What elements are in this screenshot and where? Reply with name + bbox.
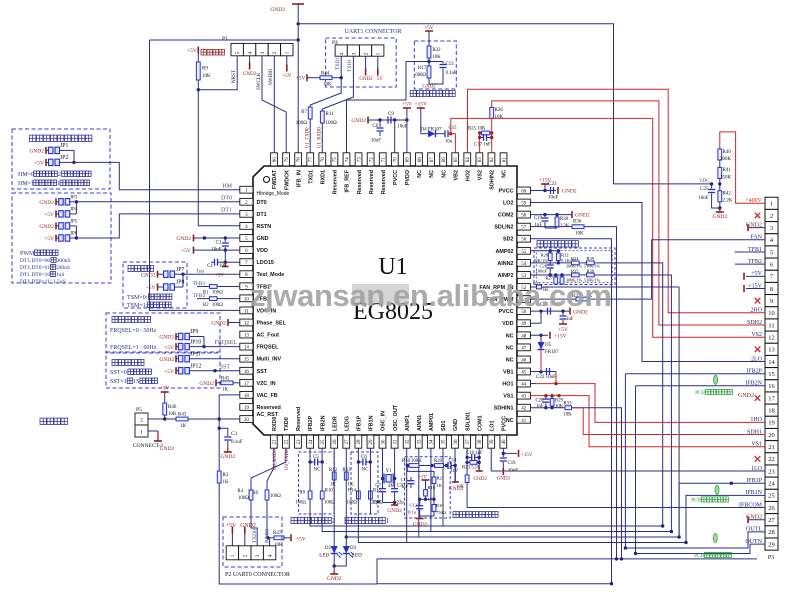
svg-text:+5V: +5V: [44, 236, 54, 242]
svg-text:47: 47: [521, 346, 527, 351]
wire LO1 pin39 to 1LO P3 pin23: [491, 448, 765, 471]
red wire 2HO: HO2 pin64 to P3 pin10: [468, 89, 766, 313]
resistor R20: [435, 464, 444, 468]
svg-text:+5V: +5V: [164, 369, 174, 375]
svg-text:SST=1: SST=1: [110, 379, 127, 385]
svg-text:10K: 10K: [168, 412, 177, 417]
capacitor C22 10uF: [546, 368, 548, 375]
pin 43 box: [517, 392, 530, 399]
svg-text:3: 3: [770, 225, 773, 232]
svg-text:78: 78: [297, 157, 302, 163]
pin 14 box: [240, 343, 253, 350]
wire AINN2 pin54 with R34 R39 out right: [530, 262, 571, 264]
pin 42 box: [517, 404, 530, 411]
svg-text:2.2K: 2.2K: [723, 199, 733, 204]
capacitor C9: [387, 117, 389, 124]
svg-text:35: 35: [442, 439, 447, 445]
svg-text:C1: C1: [207, 264, 213, 269]
pin 34 box: [427, 435, 434, 448]
svg-text:PVCC: PVCC: [502, 416, 508, 431]
svg-text:40: 40: [502, 439, 507, 445]
pin 24 box: [307, 435, 314, 448]
wire VDD pin49 to +5V: [530, 322, 541, 324]
svg-text:HM=1: HM=1: [18, 181, 34, 187]
svg-text:100Ω: 100Ω: [295, 501, 306, 506]
svg-text:19: 19: [768, 420, 775, 427]
svg-text:GND2: GND2: [712, 214, 727, 220]
svg-text:IFB2N: IFB2N: [320, 415, 326, 431]
resistor R14 100 on IFB1P: [357, 491, 361, 499]
pin 20 box: [240, 416, 253, 423]
wire Multi_INV pin15: [189, 358, 239, 360]
wire PVCC pin40 with C18: [502, 448, 504, 457]
svg-text:80: 80: [273, 157, 278, 163]
svg-text:58: 58: [521, 214, 527, 219]
svg-text:R18: R18: [428, 485, 436, 490]
svg-text:FWDAT: FWDAT: [272, 169, 278, 189]
svg-text:2: 2: [58, 172, 61, 178]
svg-text:R25 10K: R25 10K: [468, 127, 486, 132]
wire SD2 pin56: [377, 239, 612, 584]
svg-text:R46: R46: [168, 405, 177, 410]
svg-text:R29: R29: [555, 399, 564, 404]
capacitor C13 0.1uF: [429, 62, 443, 64]
red wire 1HO: HO1 pin44 to P3 pin19: [530, 383, 536, 385]
green marker PCB diff pair 2: [714, 375, 718, 384]
svg-text:20: 20: [768, 432, 775, 439]
svg-text:R43: R43: [178, 413, 187, 418]
svg-text:·5V: ·5V: [375, 77, 383, 82]
svg-text:GND: GND: [453, 419, 459, 431]
svg-text:31: 31: [393, 439, 398, 445]
svg-text:+5V: +5V: [558, 327, 568, 333]
svg-text:GND2: GND2: [562, 189, 577, 195]
svg-text:10K: 10K: [495, 115, 504, 120]
svg-text:LDO15: LDO15: [257, 260, 274, 266]
svg-text:68: 68: [418, 157, 423, 163]
svg-text:23: 23: [768, 468, 775, 475]
+5V and resistor R9 10K: [197, 47, 199, 54]
pin 17 box: [240, 379, 253, 386]
no-connect X at P3 pin 22: [755, 456, 761, 462]
wire TFB2 stub to P3 pin6: [735, 263, 765, 265]
svg-text:FWDCK: FWDCK: [284, 170, 290, 190]
resistor R33 10K: [565, 406, 572, 410]
svg-text:25: 25: [321, 439, 326, 445]
second stage limit text: [453, 512, 459, 518]
svg-text:Hbridge_Mode: Hbridge_Mode: [257, 191, 290, 197]
svg-text:5: 5: [235, 51, 241, 54]
svg-text:GND2: GND2: [243, 72, 257, 77]
pin 27 box: [343, 435, 350, 448]
svg-text:55: 55: [521, 250, 527, 255]
svg-text:GND2: GND2: [575, 213, 590, 219]
svg-text:NC: NC: [506, 345, 514, 351]
svg-text:D3: D3: [350, 546, 357, 551]
pin 59 box: [517, 199, 530, 206]
wire PVCC pin60 with C23: [530, 189, 556, 191]
svg-text:32: 32: [405, 439, 410, 445]
svg-text:DT0: DT0: [221, 196, 232, 202]
resistor R30 3.3K: [555, 217, 559, 227]
wire SDHIN1 pin42 with R33: [530, 407, 565, 409]
svg-text:0.1u: 0.1u: [408, 510, 417, 515]
resistor R26 10K: [490, 107, 494, 118]
resistor R3 1K: [217, 471, 221, 483]
svg-text:1: 1: [285, 51, 291, 54]
svg-text:23: 23: [297, 439, 302, 445]
pin 11 box: [240, 307, 253, 314]
pin 26 box: [331, 435, 338, 448]
svg-text:R9: R9: [202, 67, 208, 72]
capacitor C18 10uF: [500, 457, 507, 459]
pin 39 box: [488, 435, 495, 448]
svg-text:D2: D2: [325, 546, 332, 551]
svg-text:510K/1%: 510K/1%: [584, 264, 601, 269]
pin 73 box: [355, 153, 362, 166]
svg-text:15: 15: [244, 358, 250, 363]
svg-text:14: 14: [244, 346, 250, 351]
svg-text:100Ω: 100Ω: [326, 121, 338, 126]
dashed box: P2 UART0 connector: [223, 517, 282, 567]
svg-text:41: 41: [521, 419, 527, 424]
svg-text:TXD0: TXD0: [284, 417, 290, 431]
svg-text:4: 4: [339, 52, 345, 55]
pin 31 box: [391, 435, 398, 448]
svg-text:TXD1: TXD1: [348, 59, 353, 72]
svg-text:R40: R40: [723, 150, 732, 155]
pin 6 box: [240, 247, 253, 254]
svg-text:1K: 1K: [223, 480, 230, 485]
wire DT1 net to pin3: [75, 226, 77, 238]
svg-text:GND2: GND2: [160, 446, 175, 452]
svg-text:VDD: VDD: [502, 321, 513, 327]
wire LO2 pin59 to 2LO P3 pin14: [530, 203, 765, 362]
capacitor C12 0.1uF: [419, 499, 421, 505]
svg-text:62: 62: [490, 157, 495, 163]
svg-text:R34: R34: [571, 256, 579, 261]
svg-text:10u: 10u: [445, 140, 453, 145]
pin 63 box: [476, 153, 483, 166]
svg-text:30: 30: [381, 439, 386, 445]
svg-text:IFB1P: IFB1P: [357, 415, 363, 431]
svg-text:COM2: COM2: [498, 213, 514, 219]
wire AINN1 pin33 down: [418, 448, 420, 537]
svg-text:Phase_SEL: Phase_SEL: [257, 320, 287, 326]
wire FAN_RPM_IN pin52 with R31: [530, 286, 536, 288]
svg-text:R30: R30: [560, 217, 569, 222]
connector P5 CONNECT-2 output reset: [40, 418, 46, 425]
svg-text:1nF: 1nF: [401, 484, 409, 489]
svg-text:+5V: +5V: [164, 345, 174, 351]
svg-text:FRQSEL=1 : 60Hz: FRQSEL=1 : 60Hz: [110, 345, 157, 351]
svg-text:56: 56: [521, 238, 527, 243]
red wire SDH1 to P3 pin20: [572, 408, 766, 435]
wire SST pin16: [189, 370, 239, 372]
pin 64 box: [464, 153, 471, 166]
svg-text:TSM=0:: TSM=0:: [127, 295, 148, 301]
no-connect X at P3 pin 2: [755, 213, 761, 219]
svg-text:C17 1nF: C17 1nF: [474, 143, 491, 148]
svg-text:1K: 1K: [348, 483, 354, 488]
pin 13 box: [240, 331, 253, 338]
svg-text:GND2: GND2: [359, 77, 373, 82]
svg-text:DT1.DT0=11: 1.5uS: DT1.DT0=11: 1.5uS: [20, 279, 66, 285]
pin 2 box: [240, 198, 253, 205]
svg-text:NC: NC: [506, 357, 514, 363]
svg-text:0.1uF: 0.1uF: [446, 71, 457, 76]
svg-text:U1_RXD0: U1_RXD0: [318, 127, 323, 148]
pin 37 box: [464, 435, 471, 448]
svg-text:79: 79: [285, 157, 290, 163]
svg-text:59: 59: [521, 202, 527, 207]
svg-text:R21: R21: [437, 476, 445, 481]
svg-text:3: 3: [260, 51, 266, 54]
pin 48 box: [517, 332, 530, 339]
wire IFB2N pin25 down: [322, 448, 671, 531]
no-connect X at P3 pin 9: [755, 298, 761, 304]
pin 75 box: [331, 153, 338, 166]
svg-text:JP1: JP1: [60, 143, 68, 149]
svg-text:NC: NC: [441, 170, 447, 178]
svg-text:Reserved: Reserved: [357, 170, 363, 194]
red wire SDHIN2 pin62: [491, 118, 493, 152]
pin 68 box: [416, 153, 423, 166]
svg-text:C15: C15: [449, 126, 458, 131]
svg-text:49: 49: [521, 322, 527, 327]
wire AINP2 pin53 with R35 R38 out right: [530, 274, 571, 276]
resistor R41 150K: [718, 167, 722, 178]
pin 1 indicator circle: [264, 177, 270, 183]
red wire VB2 pin65: [451, 134, 456, 153]
+5V GND2 into P2: [231, 530, 233, 546]
svg-text:100K: 100K: [411, 459, 422, 464]
svg-text:R8: R8: [299, 491, 305, 496]
svg-text:100nF: 100nF: [535, 268, 547, 273]
no-connect X at P3 pin 17: [755, 395, 761, 401]
resistor R10 100 on IFB2N: [320, 491, 324, 499]
svg-text:60: 60: [521, 189, 527, 194]
pin 5 box: [240, 235, 253, 242]
watermark: [352, 284, 409, 305]
capacitor C26 100nF: [549, 261, 551, 265]
wire TXD0 pin22 down to P2: [251, 448, 286, 490]
svg-text:+5V: +5V: [296, 537, 306, 543]
svg-text:JP5: JP5: [70, 219, 78, 224]
svg-text:VZC_IN: VZC_IN: [257, 381, 276, 387]
wire AMP01 pin34 down: [430, 448, 432, 531]
+5V and resistor R46 10K: [161, 391, 169, 393]
svg-text:1nF: 1nF: [451, 469, 459, 474]
svg-text:C19: C19: [534, 216, 543, 221]
svg-text:JP3: JP3: [70, 195, 78, 200]
svg-text:JP12: JP12: [190, 364, 201, 370]
svg-text:10K: 10K: [456, 484, 465, 489]
svg-text:R45: R45: [221, 377, 230, 382]
capacitor C17 1nF: [480, 137, 483, 139]
resistor R24 10K: [465, 475, 469, 483]
svg-text:57: 57: [521, 226, 527, 231]
svg-text:VDD: VDD: [257, 248, 268, 254]
svg-text:GND2: GND2: [387, 508, 402, 514]
svg-text:P1: P1: [222, 36, 228, 42]
svg-text:27: 27: [345, 439, 350, 445]
resistor R42 2.2K: [718, 191, 722, 202]
svg-text:0.1uF: 0.1uF: [231, 440, 243, 445]
op-amp U1 EG8025 chip body: [253, 166, 517, 435]
svg-text:21: 21: [768, 444, 775, 451]
wire PVCC pin50 with C21: [530, 310, 570, 312]
capacitor C25 10nF: [711, 184, 713, 189]
wire COM2 pin58 with C19 R30: [530, 214, 572, 216]
svg-text:HO1: HO1: [502, 382, 513, 388]
wire GND pin36: [454, 448, 456, 482]
resistor R40 200K: [718, 149, 722, 160]
svg-text:NC: NC: [429, 170, 435, 178]
capacitor C24 1uF and +5V: [562, 311, 564, 315]
red wire C22 to HO1 bootstrap: [555, 372, 557, 384]
svg-text:28: 28: [357, 439, 362, 445]
pin 9 box: [240, 283, 253, 290]
svg-text:DT1: DT1: [221, 208, 232, 214]
pin 76 box: [319, 153, 326, 166]
pin 77 box: [307, 153, 314, 166]
svg-text:C14: C14: [449, 459, 458, 464]
dashed box: PWM dead-zone config: [12, 193, 111, 283]
resistor R13 1K on LEDG: [344, 472, 348, 480]
svg-text:UART1 CONNECTOR: UART1 CONNECTOR: [344, 29, 401, 35]
svg-text:70: 70: [394, 157, 399, 163]
svg-text:R36: R36: [573, 220, 582, 225]
svg-text:GND2: GND2: [39, 224, 54, 230]
current feedback 2 title: [291, 517, 297, 523]
capacitor C23 10uF: [550, 187, 552, 194]
wire P5 pin2 to node: [148, 418, 165, 420]
capacitor C1 100nF on LDO15 pin7: [211, 261, 215, 263]
svg-text:SDHIN2: SDHIN2: [490, 170, 496, 190]
svg-text:TXD0: TXD0: [252, 529, 258, 543]
svg-text:JP10: JP10: [190, 340, 201, 346]
red wire SDH2: R26 net to P3 pin11: [492, 101, 765, 325]
pin 70 box: [391, 153, 398, 166]
svg-text:PVCC: PVCC: [393, 170, 399, 185]
svg-text:C20: C20: [536, 399, 545, 404]
wire IFB2P pin24 down: [310, 448, 663, 526]
svg-text:SD2: SD2: [503, 237, 514, 243]
svg-text:COM1: COM1: [477, 415, 483, 431]
svg-text:SST=0: SST=0: [110, 370, 127, 376]
svg-text:+15V: +15V: [554, 333, 567, 339]
svg-text:22: 22: [768, 456, 775, 463]
svg-text:14: 14: [768, 359, 775, 366]
svg-text:+15V: +15V: [521, 453, 533, 458]
pin 65 box: [452, 153, 459, 166]
svg-text:46: 46: [521, 358, 527, 363]
svg-text:C25: C25: [700, 187, 709, 192]
svg-text:AMP01: AMP01: [429, 413, 435, 431]
svg-text:AINN2: AINN2: [497, 261, 513, 267]
wire IFB2P horizontal: [625, 373, 765, 375]
svg-text:NRST: NRST: [232, 70, 237, 83]
capacitor C2 10uF: [224, 238, 226, 242]
dashed box: first-stage current limit: [414, 41, 456, 89]
wire DT0 net to pin2: [75, 202, 77, 214]
svg-text:U1_TXD0: U1_TXD0: [306, 127, 311, 148]
svg-text:GND2: GND2: [199, 381, 214, 387]
svg-text:VAC_FB: VAC_FB: [257, 393, 278, 399]
svg-text:RXD0: RXD0: [264, 529, 270, 543]
svg-text:SST: SST: [220, 365, 231, 371]
pin 25 box: [319, 435, 326, 448]
pin 28 box: [355, 435, 362, 448]
capacitor C14 1nF: [447, 462, 449, 469]
pin 53 box: [517, 272, 530, 279]
pin 50 box: [517, 308, 530, 315]
svg-text:48: 48: [521, 334, 527, 339]
svg-text:R22: R22: [433, 48, 442, 53]
svg-text:1K: 1K: [180, 424, 187, 429]
svg-text:33: 33: [418, 439, 423, 445]
svg-text:IFB2P: IFB2P: [308, 415, 314, 431]
svg-text:34: 34: [430, 439, 435, 445]
wire VAC_FB pin18 + vertical rail: [219, 394, 240, 396]
svg-text:TXD1: TXD1: [336, 57, 341, 70]
svg-text:RXD1: RXD1: [321, 170, 327, 184]
red wire VS2: C15 node to P3 pin12: [451, 118, 765, 337]
svg-text:R23 5.1K: R23 5.1K: [462, 465, 481, 470]
svg-text:R44: R44: [321, 72, 330, 77]
svg-text:25: 25: [768, 493, 775, 500]
crystal Y1 4M: [382, 448, 384, 488]
+5V to pin69: [403, 107, 411, 109]
svg-text:27: 27: [768, 517, 775, 524]
svg-text:GND2: GND2: [220, 454, 235, 460]
svg-text:VB2: VB2: [453, 170, 459, 181]
svg-text:R2: R2: [203, 303, 209, 308]
wire SWDIO P1.2 to pin80: [273, 56, 275, 153]
pin 80 box: [271, 153, 278, 166]
resistor R4 100: [249, 490, 253, 500]
svg-text:100Ω: 100Ω: [296, 121, 308, 126]
svg-text:66: 66: [442, 157, 447, 163]
svg-text:LO2: LO2: [503, 201, 513, 207]
svg-text:150K: 150K: [720, 176, 732, 181]
svg-text:PCB: PCB: [695, 390, 706, 396]
wire VS1 pin43 red row with C20 R29: [530, 395, 559, 397]
pin 33 box: [415, 435, 422, 448]
pin 22 box: [282, 435, 289, 448]
svg-text:+5V: +5V: [44, 212, 54, 218]
diode D5 FR107: [540, 335, 542, 342]
svg-text:36: 36: [454, 439, 459, 445]
pin 41 box: [517, 416, 530, 423]
svg-text:Multi_INV: Multi_INV: [257, 357, 282, 363]
svg-text:2: 2: [364, 52, 370, 55]
pin 49 box: [517, 320, 530, 327]
svg-text:17: 17: [244, 382, 250, 387]
pin 29 box: [367, 435, 374, 448]
svg-text:R41: R41: [723, 168, 732, 173]
svg-text:26: 26: [333, 439, 338, 445]
pin 46 box: [517, 356, 530, 363]
svg-text:SST: SST: [257, 369, 268, 375]
svg-text:100Ω: 100Ω: [212, 303, 223, 308]
svg-text:VB1: VB1: [503, 370, 514, 376]
svg-text:+5V: +5V: [215, 274, 224, 279]
resistors R28 R32 on AMP02 pin55: [530, 250, 558, 252]
svg-text:GND2: GND2: [159, 357, 174, 363]
svg-text:10uF: 10uF: [211, 248, 222, 253]
